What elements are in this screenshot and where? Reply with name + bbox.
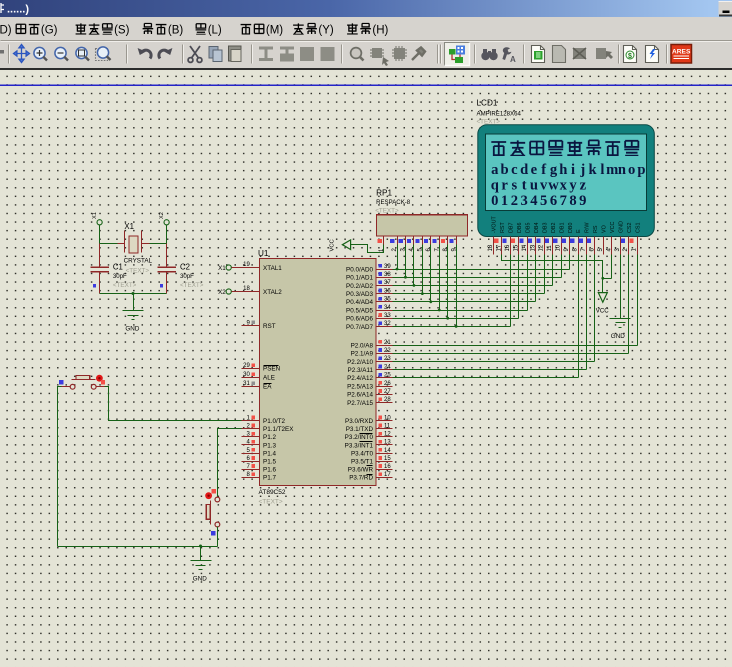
svg-text:17: 17 [496, 244, 502, 251]
svg-text:D): D) [0, 25, 12, 37]
pin 22 stub [377, 353, 393, 355]
svg-text:AMPIRE128X64: AMPIRE128X64 [477, 111, 522, 118]
wire X1 terminal to crystal [100, 225, 118, 244]
C2 probe marker [160, 284, 163, 287]
svg-text:e: e [531, 162, 538, 178]
svg-text:XTAL1: XTAL1 [263, 265, 282, 272]
pin 11 stub [377, 428, 393, 430]
svg-text:X2: X2 [218, 289, 226, 296]
svg-text:CRYSTAL: CRYSTAL [124, 257, 153, 264]
svg-text:GND: GND [618, 221, 624, 233]
svg-text:P3.0/RXD: P3.0/RXD [345, 418, 373, 425]
wire P0.6 row [393, 318, 519, 320]
svg-text:$: $ [628, 53, 632, 60]
svg-text:33: 33 [384, 313, 391, 319]
capacitor C2 [166, 244, 168, 267]
wire P0.3 row [393, 293, 545, 295]
toolbar electrical check icon [646, 46, 659, 63]
svg-text:X1: X1 [92, 212, 98, 219]
pin 15 stub [377, 461, 393, 463]
svg-text:P3.5/T1: P3.5/T1 [351, 459, 374, 466]
svg-text:P2.7/A15: P2.7/A15 [347, 400, 373, 407]
wire P2 to LCD R/W [393, 255, 587, 370]
svg-text:P3.4/T0: P3.4/T0 [351, 450, 374, 457]
svg-text:......): ......) [7, 4, 29, 16]
svg-text:(H): (H) [372, 25, 388, 37]
svg-text:t: t [522, 178, 527, 194]
SW1 right pin [97, 386, 105, 388]
wire LCD DB2 vertical [552, 255, 554, 286]
title bar [0, 0, 732, 17]
svg-text:PSEN: PSEN [263, 366, 281, 373]
svg-text:P3.2/INT0: P3.2/INT0 [345, 434, 374, 441]
ground symbol (crystal) [123, 311, 144, 320]
svg-text:w: w [548, 178, 559, 194]
svg-text:P0.5/AD5: P0.5/AD5 [346, 307, 373, 314]
pin 39 stub [377, 269, 393, 271]
svg-text:1: 1 [501, 193, 508, 209]
pin 33 stub [377, 318, 393, 320]
svg-text:ARES: ARES [672, 49, 691, 56]
power terminal VCC (RP1) [342, 240, 350, 250]
svg-text:XTAL2: XTAL2 [263, 289, 282, 296]
pin 17 stub [377, 477, 393, 479]
pin 35 stub [377, 301, 393, 303]
toolbar zoom-out icon [55, 47, 68, 60]
toolbar ARES icon [671, 45, 692, 64]
svg-text:P3.6/WR: P3.6/WR [348, 467, 374, 474]
svg-text:28: 28 [384, 397, 391, 403]
wire P0.5 row [393, 310, 528, 312]
terminal X2 (crystal right) [164, 220, 169, 225]
pin 12 stub [377, 436, 393, 438]
svg-text:<TEXT>: <TEXT> [375, 207, 399, 214]
toolbar gray magnifier icon [351, 48, 364, 61]
svg-text:q: q [491, 178, 499, 194]
svg-text:v: v [540, 178, 548, 194]
svg-text:j: j [579, 162, 585, 178]
svg-text:(M): (M) [266, 25, 283, 37]
pin 24 stub [377, 369, 393, 371]
svg-text:13: 13 [530, 244, 536, 251]
svg-text:P1.3: P1.3 [263, 442, 276, 449]
svg-text:R/W: R/W [585, 222, 591, 233]
SW1 probe marker [59, 380, 64, 385]
toolbar copy icon [209, 47, 218, 59]
svg-text:P2.2/A10: P2.2/A10 [347, 359, 373, 366]
svg-text:P1.2: P1.2 [263, 434, 276, 441]
wire RP1 pin 7 to P0.5 [439, 245, 441, 311]
wire P2 to LCD CS2 [393, 255, 629, 354]
svg-text:9: 9 [579, 193, 586, 209]
svg-text:P1.5: P1.5 [263, 459, 276, 466]
svg-text:<TEXT>: <TEXT> [477, 118, 501, 125]
lcd screen [486, 134, 647, 211]
menu item system(Y) [293, 23, 304, 34]
svg-text:(S): (S) [114, 25, 130, 37]
toolbar gray doc icon [553, 46, 566, 63]
svg-text:RS: RS [593, 225, 599, 233]
svg-text:GND: GND [125, 326, 139, 333]
ground symbol (LCD) [610, 319, 631, 328]
svg-text:35: 35 [384, 297, 391, 303]
pin P1.1/T2EX (2) stub [242, 428, 260, 430]
toolbar disabled netlist icon [573, 48, 586, 59]
svg-text:16: 16 [505, 244, 511, 251]
svg-text:VCC: VCC [330, 239, 336, 251]
svg-text:P1.4: P1.4 [263, 450, 276, 457]
svg-text:P0.4/AD4: P0.4/AD4 [346, 299, 373, 306]
toolbar undo icon [141, 50, 151, 58]
svg-text:11: 11 [547, 245, 553, 252]
toolbar disabled placement icons [259, 47, 335, 62]
lcd LCD1 AMPIRE128X64 module body [478, 125, 655, 237]
svg-text:10: 10 [556, 244, 562, 251]
toolbar hammer icon [412, 48, 425, 61]
svg-text:P0.1/AD1: P0.1/AD1 [346, 275, 373, 282]
wire LCD DB7 vertical [510, 255, 512, 327]
svg-text:12: 12 [384, 432, 391, 438]
pin 16 stub [377, 469, 393, 471]
svg-text:P3.7/RD: P3.7/RD [349, 475, 373, 482]
toolbar chip-arrow icon [370, 48, 389, 66]
svg-text:2: 2 [511, 193, 518, 209]
svg-text:E: E [576, 229, 582, 233]
svg-text:26: 26 [384, 381, 391, 387]
pin P1.3 (4) stub [242, 444, 260, 446]
svg-text:31: 31 [243, 381, 250, 387]
svg-text:CS2: CS2 [627, 223, 633, 234]
pin P1.4 (5) stub [242, 453, 260, 455]
svg-text:37: 37 [384, 280, 391, 286]
svg-text:14: 14 [522, 244, 528, 251]
pin P1.6 (7) stub [242, 469, 260, 471]
svg-text:18: 18 [488, 244, 494, 251]
wire LCD DB3 vertical [544, 255, 546, 294]
svg-text:u: u [530, 178, 538, 194]
wire P0.4 row [393, 301, 536, 303]
svg-text:DB7: DB7 [509, 223, 515, 234]
push button SW2 (vertical) [215, 497, 220, 502]
sheet border top edge [0, 84, 732, 86]
toolbar zoom-all icon [76, 47, 89, 60]
svg-text:DB2: DB2 [551, 223, 557, 234]
RP1 pin 2 stub [397, 237, 399, 245]
wire P0.1 row [393, 277, 562, 279]
wire ground bus bottom [58, 546, 218, 548]
wire capacitor bottom bus [100, 293, 167, 295]
svg-text:38: 38 [384, 272, 391, 278]
svg-text:h: h [559, 162, 567, 178]
RP1 pin 6 stub [430, 237, 432, 245]
pin 36 stub [377, 293, 393, 295]
pin 32 stub [377, 326, 393, 328]
ground symbol (buttons) [191, 561, 212, 570]
svg-text:(G): (G) [41, 25, 58, 37]
toolbar cut icon [188, 46, 202, 62]
svg-text:CS1: CS1 [635, 223, 641, 234]
svg-text:VO: VO [602, 225, 608, 233]
pin 27 stub [377, 394, 393, 396]
pin 14 stub [377, 453, 393, 455]
svg-text:n: n [618, 162, 626, 178]
RP1 pin 4 stub [413, 237, 415, 245]
pin 25 stub [377, 377, 393, 379]
svg-text:c: c [511, 162, 518, 178]
pin EA (31) stub [242, 386, 260, 388]
svg-text:P1.6: P1.6 [263, 467, 276, 474]
svg-text:<TEXT>: <TEXT> [180, 282, 204, 289]
wire P0.2 row [393, 285, 553, 287]
svg-text:(Y): (Y) [318, 25, 334, 37]
terminal X1 (crystal left) [97, 220, 102, 225]
title text (partially cut filename) [1, 3, 4, 13]
svg-text:P1.7: P1.7 [263, 475, 276, 482]
toolbar edge line above canvas [0, 68, 732, 70]
svg-text:LCD1: LCD1 [477, 99, 498, 108]
svg-text:P1.0/T2: P1.0/T2 [263, 418, 286, 425]
menu item help(H) [347, 23, 358, 34]
capacitor C1 [99, 244, 101, 267]
RP1 pin 9 stub [456, 237, 458, 245]
svg-text:23: 23 [384, 356, 391, 362]
svg-text:16: 16 [384, 464, 391, 470]
SW1 left pin [62, 386, 71, 388]
pin P1.5 (6) stub [242, 461, 260, 463]
toolbar chip icon [392, 46, 407, 61]
SW2 actuation marker (red) [205, 492, 212, 499]
svg-text:P2.5/A13: P2.5/A13 [347, 383, 373, 390]
power terminal VCC (LCD) [598, 293, 607, 303]
wire LCD DB4 vertical [535, 255, 537, 302]
RP1 pin 3 stub [405, 237, 407, 245]
svg-text:P2.3/A11: P2.3/A11 [348, 367, 374, 374]
wire P2 to LCD E [393, 255, 579, 378]
svg-text:19: 19 [243, 262, 250, 268]
pin 37 stub [377, 285, 393, 287]
svg-text:P2.4/A12: P2.4/A12 [347, 375, 373, 382]
resistor pack RP1 body [377, 215, 468, 236]
wire P0.7 row [393, 326, 511, 328]
svg-text:s: s [512, 178, 518, 194]
svg-text:g: g [550, 162, 558, 178]
svg-text:14: 14 [384, 448, 391, 454]
svg-text:A: A [510, 55, 516, 64]
svg-text:AT89C52: AT89C52 [259, 489, 286, 496]
svg-text:32: 32 [384, 321, 391, 327]
svg-text:8: 8 [569, 193, 576, 209]
svg-text:RST: RST [500, 222, 506, 233]
svg-text:r: r [501, 178, 508, 194]
wire RP1 pin 8 to P0.6 [447, 245, 449, 319]
wire RP1 pin 4 to P0.2 [413, 245, 415, 286]
wire LCD GND pin to ground [620, 255, 622, 319]
svg-text:C2: C2 [180, 262, 190, 271]
svg-text:U1: U1 [258, 249, 269, 258]
mcu U1 AT89C52 body [260, 259, 377, 486]
wire crystal to X2 terminal [150, 225, 167, 244]
menu item draw(G) [16, 24, 25, 33]
svg-text:5: 5 [540, 193, 547, 209]
svg-text:GND: GND [193, 576, 207, 583]
svg-text:30: 30 [243, 372, 250, 378]
svg-text:4: 4 [530, 193, 538, 209]
svg-text:-VOUT: -VOUT [492, 216, 498, 233]
svg-text:<TEXT>: <TEXT> [259, 499, 283, 506]
toolbar zoom-area icon [96, 49, 108, 61]
svg-text:p: p [637, 162, 645, 178]
svg-text:P0.2/AD2: P0.2/AD2 [346, 283, 373, 290]
svg-text:39: 39 [384, 264, 391, 270]
svg-text:GND: GND [611, 333, 625, 340]
wire P1.1 to SW2 [218, 429, 242, 498]
svg-text:15: 15 [513, 244, 519, 251]
menu item source(S) [76, 23, 87, 34]
svg-text:34: 34 [384, 305, 391, 311]
wire RP1 pin 2 to P0.0 [397, 245, 399, 270]
menu item library(L) [196, 24, 207, 35]
svg-text:RST: RST [263, 323, 276, 330]
pin 23 stub [377, 361, 393, 363]
svg-text:21: 21 [384, 340, 391, 346]
wire to ground (crystal) [133, 294, 135, 311]
pin ALE (30) stub [242, 377, 260, 379]
svg-text:X1: X1 [124, 222, 134, 231]
menu item debug(B) [143, 23, 154, 34]
pin 10 stub [377, 420, 393, 422]
wire P2 to LCD CS1 [393, 255, 638, 346]
toolbar property tool icon [502, 47, 511, 60]
wire RP1 pin 5 to P0.3 [422, 245, 424, 294]
toolbar partial icon at left edge [0, 50, 4, 53]
svg-text:X2: X2 [159, 212, 165, 219]
svg-text:10: 10 [384, 415, 391, 421]
svg-text:VCC: VCC [596, 308, 609, 315]
svg-text:15: 15 [384, 456, 391, 462]
RP1 pin 5 stub [422, 237, 424, 245]
svg-text:<TEXT>: <TEXT> [126, 267, 150, 274]
svg-text:m: m [606, 162, 618, 178]
wire LCD DB5 vertical [527, 255, 529, 311]
svg-text:DB0: DB0 [568, 223, 574, 234]
toolbar [0, 42, 732, 68]
svg-text:P0.0/AD0: P0.0/AD0 [346, 266, 373, 273]
toolbar paste icon [229, 46, 242, 61]
pin 26 stub [377, 386, 393, 388]
RP1 pin 7 stub [439, 237, 441, 245]
pin XTAL2 stub and number 18 [232, 291, 260, 293]
svg-text:a: a [491, 162, 499, 178]
menu bar [0, 17, 732, 41]
wire RP1 pin 6 to P0.4 [430, 245, 432, 302]
svg-text:DB5: DB5 [526, 223, 532, 234]
C1 probe marker [93, 284, 96, 287]
svg-text:RP1: RP1 [376, 189, 392, 198]
svg-text:P2.1/A9: P2.1/A9 [351, 351, 374, 358]
wire RP1 pin 9 to P0.7 [456, 245, 458, 327]
svg-text:DB6: DB6 [517, 223, 523, 234]
svg-text:18: 18 [243, 286, 250, 292]
svg-text:f: f [541, 162, 546, 178]
svg-text:DB3: DB3 [542, 223, 548, 234]
svg-text:y: y [569, 178, 577, 194]
svg-text:d: d [520, 162, 528, 178]
pin 38 stub [377, 277, 393, 279]
svg-text:b: b [501, 162, 509, 178]
svg-text:22: 22 [384, 348, 391, 354]
pin P1.7 (8) stub [242, 477, 260, 479]
wire LCD RST to VCC net [502, 255, 612, 293]
svg-text:DB4: DB4 [534, 223, 540, 234]
toolbar zoom-in icon [34, 47, 47, 60]
wire P2 to LCD RS [393, 255, 595, 362]
pin 28 stub [377, 402, 393, 404]
wire VCC to RP1 pin1 [351, 245, 384, 253]
svg-text:P0.3/AD3: P0.3/AD3 [346, 291, 373, 298]
svg-text:P2.0/A8: P2.0/A8 [351, 342, 374, 349]
svg-text:x: x [560, 178, 568, 194]
pin P1.2 (3) stub [242, 436, 260, 438]
wire SW2 bottom to ground bus [217, 527, 219, 547]
wire SW1 left to ground bus [58, 387, 62, 547]
svg-text:29: 29 [243, 363, 250, 369]
svg-text:o: o [628, 162, 635, 178]
svg-text:ALE: ALE [263, 375, 275, 382]
RP1 pin 8 stub [447, 237, 449, 245]
pin 34 stub [377, 310, 393, 312]
minimize window button [719, 2, 732, 16]
svg-text:27: 27 [384, 389, 391, 395]
svg-text:30pF: 30pF [180, 273, 194, 280]
svg-text:6: 6 [550, 193, 557, 209]
wire LCD DB0 vertical [569, 255, 571, 270]
svg-text:13: 13 [384, 440, 391, 446]
pin PSEN (29) stub [242, 368, 260, 370]
svg-text:z: z [580, 178, 587, 194]
toolbar find icon (binoculars) [481, 49, 497, 60]
SW2 probe marker [211, 531, 216, 536]
wire LCD DB6 vertical [518, 255, 520, 319]
toolbar disabled export icon [596, 48, 613, 59]
svg-text:7: 7 [560, 193, 567, 209]
push button SW1 (horizontal) [70, 384, 75, 389]
svg-text:k: k [589, 162, 598, 178]
svg-text:DB1: DB1 [559, 223, 565, 234]
toolbar redo icon [159, 50, 169, 58]
svg-text:P3.1/TXD: P3.1/TXD [346, 426, 374, 433]
svg-text:X1: X1 [218, 265, 226, 272]
pin 13 stub [377, 444, 393, 446]
svg-text:0: 0 [491, 193, 498, 209]
svg-text:25: 25 [384, 373, 391, 379]
wire LCD DB1 vertical [561, 255, 563, 278]
svg-text:i: i [571, 162, 575, 178]
svg-text:11: 11 [384, 424, 391, 430]
wire tap to ground (buttons) [200, 547, 202, 561]
svg-text:EA: EA [263, 384, 272, 391]
svg-text:12: 12 [539, 244, 545, 251]
svg-text:<TEXT>: <TEXT> [113, 282, 137, 289]
wire SW1 right to P1.0 [105, 387, 242, 421]
svg-text:17: 17 [384, 472, 391, 478]
SW1 actuation marker (red) [96, 375, 103, 382]
wire P0.0 row [393, 269, 570, 271]
svg-text:(L): (L) [208, 25, 222, 37]
svg-text:RESPACK-8: RESPACK-8 [376, 199, 411, 206]
crystal X1 [118, 243, 125, 245]
svg-text:30pF: 30pF [113, 273, 127, 280]
svg-text:P1.1/T2EX: P1.1/T2EX [263, 426, 294, 433]
